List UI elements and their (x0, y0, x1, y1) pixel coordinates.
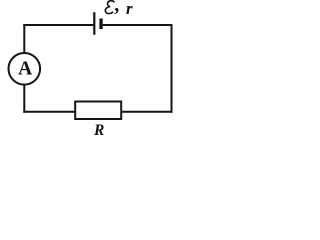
svg-text:r: r (126, 0, 133, 18)
svg-text:A: A (18, 58, 32, 79)
svg-text:R: R (93, 122, 104, 139)
svg-text:,: , (114, 0, 119, 16)
